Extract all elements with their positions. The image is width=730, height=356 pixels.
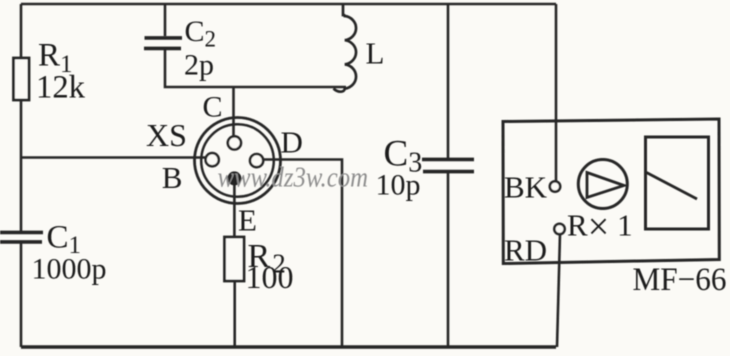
svg-text:C2: C2 [185, 15, 217, 52]
svg-text:1000p: 1000p [32, 253, 107, 286]
svg-text:XS: XS [146, 117, 187, 153]
svg-text:2p: 2p [184, 49, 214, 82]
svg-text:R×1: R×1 [567, 206, 633, 248]
svg-text:MF−66: MF−66 [633, 262, 727, 298]
svg-text:10p: 10p [376, 169, 421, 202]
svg-text:RD: RD [504, 233, 547, 268]
svg-text:L: L [366, 36, 385, 71]
svg-text:www.dz3w.com: www.dz3w.com [218, 163, 369, 194]
svg-text:C: C [203, 91, 223, 124]
svg-text:B: B [162, 160, 183, 195]
svg-text:BK: BK [504, 170, 548, 205]
svg-text:D: D [281, 125, 303, 160]
svg-text:E: E [238, 203, 257, 238]
svg-text:12k: 12k [36, 70, 85, 106]
svg-text:100: 100 [246, 259, 294, 295]
